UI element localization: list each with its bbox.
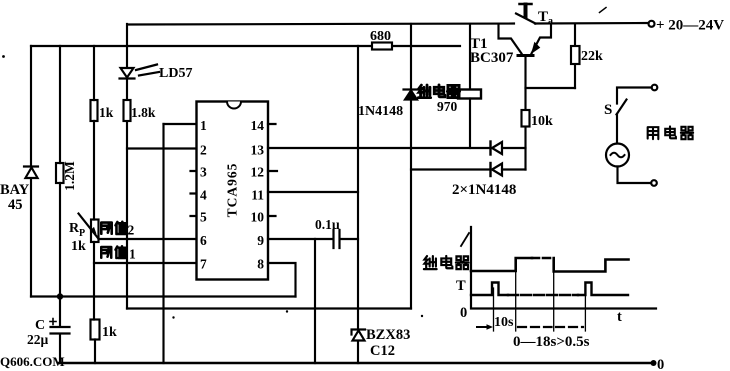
- svg-text:9: 9: [257, 233, 264, 248]
- svg-text:10: 10: [251, 210, 265, 225]
- wire long bottom run from 1.8k: [127, 307, 411, 309]
- wire 1k/RP branch: [94, 46, 95, 363]
- potentiometer RP 1k: [91, 220, 99, 243]
- svg-text:10k: 10k: [531, 114, 553, 129]
- svg-text:2×1N4148: 2×1N4148: [452, 182, 516, 198]
- op-amp U1 TCA965 body: [197, 102, 269, 280]
- pin stubs 3 4 5: [191, 171, 197, 216]
- resistor 680: [372, 43, 392, 50]
- wire bottom rail: [59, 362, 651, 364]
- svg-text:45: 45: [8, 197, 23, 213]
- svg-text:12: 12: [251, 165, 265, 180]
- switch Ta: [516, 14, 536, 24]
- wire T1 base branch: [524, 57, 526, 170]
- svg-text:1.8k: 1.8k: [131, 105, 156, 120]
- svg-text:970: 970: [437, 99, 458, 114]
- svg-text:4: 4: [200, 188, 207, 203]
- svg-text:1N4148: 1N4148: [358, 104, 403, 119]
- resistor 22k: [574, 24, 576, 88]
- svg-text:1: 1: [200, 118, 207, 133]
- wire relay bottom: [469, 99, 471, 149]
- diode 1N4148 a: [489, 142, 491, 155]
- svg-text:Q606.COM: Q606.COM: [0, 354, 65, 369]
- label 阈值1: [101, 246, 126, 258]
- speck left: [2, 55, 5, 58]
- timing T trace: [471, 283, 508, 296]
- timing axes: [471, 227, 656, 309]
- timing guide lines: [494, 258, 586, 331]
- svg-text:0: 0: [657, 357, 664, 371]
- wire LED/1.8k branch: [126, 24, 128, 309]
- wire second rail: [31, 45, 372, 47]
- svg-text:t: t: [617, 309, 622, 325]
- speck mid: [286, 310, 288, 312]
- svg-text:TCA965: TCA965: [225, 163, 240, 218]
- label 继电器 timing: [424, 256, 469, 269]
- dimension arrow 10s: [477, 326, 489, 328]
- svg-text:BAY: BAY: [0, 182, 30, 198]
- svg-text:0.1µ: 0.1µ: [315, 217, 340, 232]
- wire second rail right of 680: [392, 45, 460, 47]
- wire pin7: [94, 262, 197, 264]
- svg-text:6: 6: [200, 233, 207, 248]
- svg-text:T: T: [538, 9, 548, 25]
- wire pin1: [164, 123, 197, 125]
- node +20-24V terminal: [649, 21, 655, 27]
- svg-text:1.2M: 1.2M: [62, 161, 77, 191]
- svg-text:2: 2: [128, 223, 135, 238]
- resistor 1k bottom: [91, 320, 100, 340]
- node 0V terminal: [651, 360, 657, 366]
- svg-text:2: 2: [200, 143, 207, 158]
- svg-text:BC307: BC307: [470, 50, 514, 66]
- svg-text:680: 680: [370, 29, 391, 44]
- wire long row y296: [31, 295, 296, 297]
- svg-text:22k: 22k: [581, 49, 603, 64]
- capacitor C 22u: [51, 297, 70, 364]
- wire pin2: [127, 147, 197, 149]
- svg-text:3: 3: [200, 165, 207, 180]
- node junction dot: [57, 293, 63, 299]
- wire pin11: [268, 191, 358, 193]
- label 继电器 relay: [418, 85, 459, 98]
- diode 1N4148 b: [489, 163, 491, 176]
- resistor 1.8k: [124, 100, 131, 121]
- svg-text:P: P: [79, 228, 85, 239]
- svg-text:0—18s>0.5s: 0—18s>0.5s: [513, 334, 590, 350]
- svg-text:LD57: LD57: [159, 66, 192, 81]
- wire left rail vertical: [30, 46, 32, 297]
- wire base to 22k: [526, 87, 576, 89]
- pin stubs 14 12 10: [268, 124, 277, 216]
- svg-text:C: C: [35, 318, 45, 333]
- wire top rail left: [128, 24, 514, 25]
- svg-text:1k: 1k: [99, 105, 114, 120]
- svg-text:0: 0: [460, 305, 467, 321]
- svg-text:a: a: [548, 16, 553, 27]
- svg-text:13: 13: [251, 143, 265, 158]
- capacitor 0.1u: [334, 230, 340, 248]
- speck right: [421, 315, 423, 317]
- timing relay trace: [471, 258, 532, 271]
- wire vertical x163: [162, 124, 164, 363]
- wire diode row2: [411, 168, 490, 170]
- dimension dashes: [518, 326, 552, 328]
- speck ic bottom: [172, 316, 174, 318]
- resistor 10k: [522, 110, 530, 127]
- svg-text:11: 11: [251, 188, 264, 203]
- LED LD57: [121, 68, 134, 78]
- load lamp: [606, 144, 629, 167]
- wire 1.2M branch: [59, 46, 61, 297]
- wire pin13 row: [268, 147, 490, 149]
- svg-text:10s: 10s: [494, 315, 514, 330]
- resistor R1 1k: [91, 100, 98, 121]
- wire relay top: [469, 24, 471, 90]
- label 用电器: [648, 126, 693, 139]
- wire vertical x358: [357, 46, 359, 363]
- potentiometer arrow: [79, 214, 98, 238]
- svg-text:T: T: [456, 278, 466, 294]
- wire pin9 row: [268, 238, 333, 240]
- svg-text:5: 5: [200, 210, 207, 225]
- speck top: [600, 8, 607, 13]
- svg-text:S: S: [604, 102, 612, 118]
- label 阈值2: [101, 222, 126, 234]
- zener BZX83 C12: [352, 330, 366, 335]
- svg-text:7: 7: [200, 257, 207, 272]
- wire top rail right to supply terminal: [535, 22, 649, 25]
- svg-text:22µ: 22µ: [27, 332, 49, 347]
- switch S blade: [617, 100, 627, 115]
- relay coil 970: [458, 90, 481, 99]
- svg-text:+ 20—24V: + 20—24V: [656, 18, 724, 34]
- svg-text:14: 14: [251, 118, 265, 133]
- wire vertical x411: [410, 24, 412, 309]
- svg-text:1: 1: [129, 247, 136, 262]
- transistor Q1 BC307: [499, 24, 522, 54]
- svg-text:8: 8: [257, 257, 264, 272]
- diode 1N4148 flyback: [404, 88, 419, 90]
- svg-text:1k: 1k: [102, 325, 117, 340]
- resistor 1.2M: [56, 163, 64, 183]
- wire vertical x315: [314, 239, 316, 363]
- svg-text:C12: C12: [370, 343, 395, 359]
- wire S branch top: [652, 85, 658, 91]
- wire pin8 return: [268, 263, 296, 297]
- svg-text:BZX83: BZX83: [366, 327, 410, 343]
- svg-text:1k: 1k: [71, 239, 86, 254]
- wire pin6: [99, 238, 197, 240]
- diode BAY45: [24, 165, 38, 167]
